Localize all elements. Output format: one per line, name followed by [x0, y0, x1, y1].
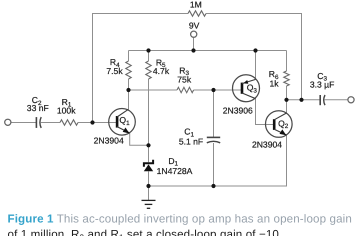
svg-text:1M: 1M — [190, 0, 202, 10]
svg-text:100k: 100k — [57, 106, 76, 116]
svg-text:7.5k: 7.5k — [106, 66, 123, 76]
svg-text:9V: 9V — [189, 21, 200, 31]
svg-text:Q2: Q2 — [278, 119, 289, 131]
svg-text:Q3: Q3 — [247, 83, 258, 95]
svg-text:75k: 75k — [177, 75, 192, 85]
svg-text:Q1: Q1 — [119, 115, 130, 127]
svg-text:2N3904: 2N3904 — [94, 135, 124, 145]
svg-text:of 1 million. R2 and R1 set a: of 1 million. R2 and R1 set a closed-loo… — [8, 228, 283, 236]
svg-text:5.1 nF: 5.1 nF — [179, 136, 203, 146]
svg-text:2N3906: 2N3906 — [223, 105, 253, 115]
svg-text:2N3904: 2N3904 — [252, 140, 282, 150]
svg-text:1k: 1k — [269, 79, 279, 89]
svg-text:33 nF: 33 nF — [27, 103, 49, 113]
svg-text:3.3 µF: 3.3 µF — [310, 79, 335, 89]
svg-text:4.7k: 4.7k — [153, 66, 170, 76]
svg-text:Figure 1 This ac-coupled inver: Figure 1 This ac-coupled inverting op am… — [8, 213, 352, 226]
svg-text:1N4728A: 1N4728A — [157, 166, 193, 176]
